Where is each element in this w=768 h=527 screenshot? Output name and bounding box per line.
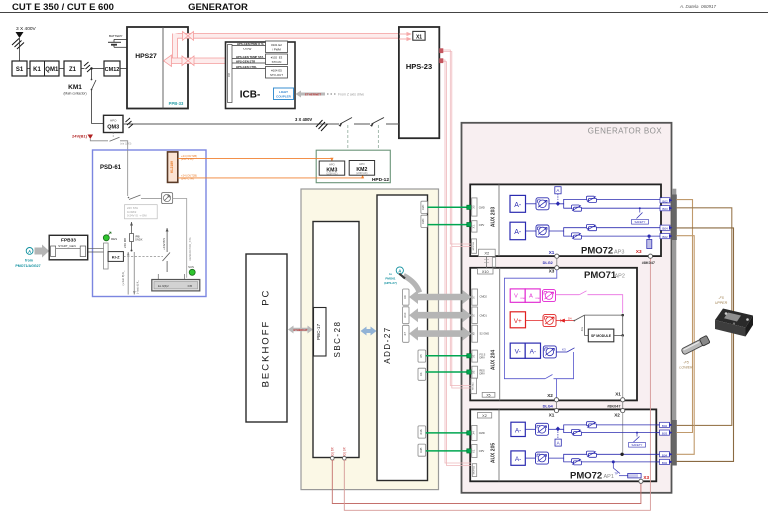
ethernet arrow from ICB (296, 91, 326, 98)
svg-text:V+: V+ (514, 318, 522, 325)
test point A box AP3 (555, 187, 561, 194)
link terminals X2-X10 (486, 256, 488, 268)
sensor CT V+ (543, 315, 556, 327)
indicator component (162, 193, 173, 204)
generator winding loop 4 (676, 236, 694, 455)
generator winding loop 3 (676, 228, 733, 462)
svg-text:HPS-GEN STR: HPS-GEN STR (236, 59, 255, 63)
svg-text:COUPLER: COUPLER (276, 95, 292, 99)
data arrow X7 to S2GND (409, 327, 472, 341)
port AP2 MCS11 (471, 378, 477, 394)
green wire X6 to AUX204 (426, 371, 469, 373)
wire QM3 to HPS-23 (123, 123, 399, 125)
svg-text:AUX 204: AUX 204 (491, 350, 497, 371)
svg-text:EL 9(6)2: EL 9(6)2 (158, 284, 169, 288)
fork upper AP1 (558, 425, 656, 429)
wire CM12 to HPS27 (120, 68, 127, 70)
generator winding loop 2 (676, 208, 732, 426)
amp module A-2 AP1 (511, 451, 525, 465)
svg-text:rew: rew (521, 297, 525, 300)
drive HPS-23 (399, 27, 439, 138)
svg-text:X7: X7 (403, 332, 407, 336)
terminal KL2189 (168, 152, 178, 183)
svg-text:A-: A- (530, 349, 537, 356)
filter Z1 (64, 61, 81, 76)
fuse F3 AP1 (587, 451, 597, 457)
converter HPS27 (127, 27, 188, 109)
switch below QM3 (112, 133, 114, 138)
switch on B/S feed (163, 253, 171, 262)
wire S1-K1 (27, 68, 30, 70)
amp module A-1 AP3 (510, 195, 526, 212)
svg-text:A: A (28, 249, 31, 254)
svg-text:X1.: X1. (471, 224, 475, 228)
port AP3 MCP311 (471, 239, 476, 253)
ICB light coupler (274, 88, 294, 100)
svg-text:SUS: SUS (188, 265, 194, 269)
svg-text:rew: rew (536, 297, 540, 300)
header rule (0, 12, 768, 14)
svg-text:(Main contactor): (Main contactor) (63, 92, 86, 96)
svg-text:B03: B03 (662, 432, 668, 436)
svg-text:GENERATOR BOX: GENERATOR BOX (588, 127, 663, 136)
svg-text:HPD-12: HPD-12 (372, 177, 389, 183)
port X10 (403, 307, 409, 324)
svg-text:PMO61: PMO61 (385, 277, 396, 281)
generator box enclosure (462, 123, 672, 493)
port X5 (418, 350, 426, 362)
svg-text:'U'V'W': 'U'V'W' (243, 47, 252, 51)
svg-text:KI-Z: KI-Z (112, 255, 120, 260)
test point A box AP1 (557, 432, 559, 440)
port AP1 MCP311 (472, 464, 476, 477)
svg-text:KM1: KM1 (68, 84, 82, 91)
ICB signal row 3 (232, 62, 266, 64)
divider AP2 (499, 268, 501, 401)
svg-text:RES: RES (111, 237, 117, 241)
LED green SUS (189, 269, 195, 275)
svg-text:SBC-28: SBC-28 (333, 320, 342, 357)
svg-text:PSD-61: PSD-61 (100, 165, 122, 171)
start module FPB33 (49, 235, 87, 259)
svg-text:-F5: -F5 (683, 361, 688, 365)
svg-text:40s: 40s (580, 326, 584, 331)
inverter PMO72 AP3 shell (470, 184, 661, 256)
wire supply to S1 (19, 38, 21, 61)
svg-text:X1: X1 (472, 354, 476, 358)
junction node AP1 upper (556, 427, 560, 432)
svg-text:GNDX: GNDX (135, 238, 143, 242)
svg-text:0-24V /S +-OM: 0-24V /S +-OM (127, 214, 147, 218)
grey arrow into FPB33 (35, 245, 50, 258)
sensor CT regen (543, 290, 556, 302)
svg-text:X5: X5 (486, 393, 490, 397)
svg-text:MCP311: MCP311 (474, 465, 476, 474)
orange wire 1 to KM3 (178, 158, 332, 160)
generator winding loop 1 (676, 200, 692, 433)
wire sf to bus (614, 334, 623, 336)
svg-text:SF MODULE: SF MODULE (591, 334, 612, 338)
terminal pin F5 LOWER (681, 335, 710, 355)
port X7 (403, 325, 409, 342)
svg-text:MCP311: MCP311 (473, 241, 475, 250)
svg-text:CMD: CMD (479, 206, 485, 210)
svg-text:X3: X3 (472, 370, 476, 374)
svg-text:OPV: OPV (479, 223, 485, 227)
svg-text:X3A: X3A (419, 429, 423, 434)
fork upper AP3 (558, 199, 661, 203)
svg-text:AP3: AP3 (614, 249, 624, 255)
card PBC-17 (314, 308, 327, 357)
svg-text:S2 GND: S2 GND (480, 332, 490, 336)
svg-text:X2: X2 (484, 251, 490, 256)
divider AP1 (498, 409, 500, 481)
curved link arrow (404, 276, 420, 293)
port AP2 FOS DRV (472, 350, 478, 362)
svg-text:Z1: Z1 (69, 67, 77, 73)
switch hatch after Z1 (81, 68, 85, 70)
dc module V+ (510, 312, 525, 328)
terminal EL 9(6)2 (157, 274, 159, 280)
svg-text:STO-OUT: STO-OUT (270, 73, 283, 77)
sensor CT1 AP1 (525, 428, 536, 430)
svg-text:X2: X2 (482, 414, 487, 418)
fuse F2 AP3 (572, 205, 582, 211)
fuse F4 AP3 (572, 233, 582, 239)
svg-text:SAFETY: SAFETY (632, 443, 643, 447)
svg-text:X6: X6 (419, 372, 423, 376)
green wire X2C to AUX203 (428, 206, 470, 208)
svg-text:(- batt d) K_: (- batt d) K_ (135, 280, 139, 294)
port X3A (418, 426, 426, 438)
svg-text:X2: X2 (614, 413, 620, 418)
junction dot AP3 lower right (648, 235, 651, 238)
wire QM1-Z1 (59, 68, 64, 70)
contactor KM2 (349, 161, 374, 176)
svg-text:B02: B02 (662, 199, 668, 203)
sensor CT V- (543, 346, 556, 358)
svg-text:CMD: CMD (479, 431, 485, 435)
red wire SBC to AP1 X3 (332, 460, 641, 504)
io module ADD-27 (377, 195, 428, 481)
svg-text:X1: X1 (615, 391, 621, 396)
sensor CT2 AP3 (536, 225, 549, 237)
note box grey (125, 205, 158, 219)
amp module A-2 AP3 (510, 222, 526, 240)
port X9 (403, 289, 409, 305)
safety switch AP3 (639, 207, 641, 209)
svg-text:BATTERY: BATTERY (109, 34, 123, 38)
svg-text:(24V STA): (24V STA) (181, 157, 193, 161)
svg-text:24V MB: 24V MB (123, 238, 127, 248)
svg-text:B03: B03 (662, 207, 668, 211)
divider AP3 (498, 184, 500, 256)
svg-text:ICB-: ICB- (240, 90, 261, 101)
sensor CT1 AP3 (536, 198, 549, 210)
svg-text:ETHERCAT: ETHERCAT (294, 328, 308, 332)
svg-text:CUT E 350 / CUT E 600: CUT E 350 / CUT E 600 (12, 2, 114, 13)
switch to dark bus (574, 315, 584, 321)
bus arrow SBC to ADD (361, 327, 377, 336)
node junction KM1 (90, 67, 92, 69)
svg-text:+24V B/S: +24V B/S (162, 238, 166, 250)
wire junction to CM12 (92, 68, 105, 70)
svg-text:X1: X1 (549, 413, 555, 418)
svg-text:HPS27: HPS27 (135, 53, 157, 60)
wire sensor1 junction (549, 203, 558, 205)
mech link dashed KM3 (347, 125, 349, 161)
LED green RES (103, 235, 109, 241)
svg-text:B02: B02 (662, 235, 668, 239)
grey bus into AP1 (622, 413, 624, 455)
battery sense wires down (127, 252, 129, 295)
svg-text:PMO71/AGG27: PMO71/AGG27 (15, 264, 40, 268)
svg-text:X3B: X3B (419, 447, 423, 452)
wire A1 to sensor1 (526, 203, 537, 205)
svg-text:HPS-GEN PWM O %: HPS-GEN PWM O % (237, 42, 264, 46)
port AP2 CMD2 (472, 289, 478, 305)
svg-text:B02: B02 (662, 461, 668, 465)
dashed link K1Z (123, 255, 163, 257)
port AP2 X10 (478, 268, 494, 274)
svg-text:X1: X1 (549, 250, 555, 255)
supply arrow (16, 32, 24, 38)
svg-text:K1: K1 (33, 67, 41, 73)
svg-text:GENERATOR_STA: GENERATOR_STA (188, 237, 192, 261)
svg-text:V-: V- (515, 349, 521, 356)
svg-text:GENERATOR: GENERATOR (188, 2, 248, 13)
fuse IPB (130, 234, 134, 242)
svg-text:A-: A- (515, 456, 522, 463)
junction dot AP1 (620, 453, 623, 456)
junction node AP3 upper (556, 201, 560, 206)
svg-text:X3: X3 (636, 249, 642, 254)
svg-text:from: from (25, 259, 33, 263)
band arrowheads at HPS27 edge mid (182, 56, 188, 66)
svg-text:A-: A- (514, 229, 522, 236)
supply hatch (12, 39, 24, 50)
svg-text:(+ batt B) K_: (+ batt B) K_ (121, 270, 125, 285)
svg-text:AP2: AP2 (615, 274, 625, 280)
svg-text:(220V AC): (220V AC) (356, 172, 367, 175)
band arrows into X1 (399, 33, 408, 35)
contactor K1 (30, 61, 59, 76)
diode D4 (556, 320, 574, 322)
svg-text:SAFETY: SAFETY (635, 220, 646, 224)
svg-text:KL2189: KL2189 (170, 161, 174, 173)
green wire X2D to AUX203 (428, 224, 470, 226)
port X6 (418, 368, 426, 380)
svg-text:HPO: HPO (359, 162, 365, 166)
svg-text:X1.: X1. (471, 449, 475, 453)
power band ICB to HPS27 (171, 58, 226, 64)
svg-text:AP1: AP1 (604, 474, 614, 480)
HPS-23 right stubs (439, 48, 443, 53)
source marker A from PMO71 (26, 248, 33, 255)
svg-text:X2D: X2D (421, 219, 425, 224)
grey link bus AP2 right (622, 335, 624, 399)
svg-text:DLG4: DLG4 (543, 404, 554, 408)
svg-text:/ PWM: / PWM (272, 48, 281, 52)
link AP3-AP2 left (556, 258, 558, 265)
ICB signal row 1 (232, 45, 266, 47)
switch contact 2 on 3x400V line (370, 123, 386, 126)
svg-text:#101 E2: #101 E2 (271, 43, 282, 47)
svg-text:(24V CTR): (24V CTR) (181, 177, 194, 181)
port AP3 X5/CMD (472, 198, 477, 216)
green wire X3B to AUX205 (426, 450, 469, 452)
sensor CM12 (104, 61, 120, 76)
fuse F3 AP3 (587, 225, 597, 231)
switch inside PSD top (129, 195, 141, 200)
svg-text:MCS11: MCS11 (473, 382, 475, 390)
band arrowheads at HPS27 edge top (183, 32, 189, 41)
ICB signal row 2 (232, 58, 266, 60)
svg-text:DLG2: DLG2 (543, 261, 553, 265)
wires FPB33 to PSD (86, 247, 104, 249)
svg-text:OPV: OPV (479, 449, 485, 453)
svg-text:AUX 205: AUX 205 (491, 443, 497, 464)
port AP2 RES DRV (472, 366, 478, 378)
svg-text:TP: TP (615, 472, 619, 476)
pink power wires HPS-23 down (443, 50, 471, 466)
link AP2-AP1 left (556, 402, 558, 409)
busbar generator (672, 189, 676, 466)
svg-text:HPO: HPO (110, 119, 117, 123)
SBC bottom terminals (331, 456, 335, 460)
svg-text:(HPS-27): (HPS-27) (384, 281, 397, 285)
svg-text:B04: B04 (662, 227, 668, 231)
svg-text:X9: X9 (472, 332, 476, 336)
green wire X5 to AUX204 (426, 355, 469, 357)
svg-text:PBC-17: PBC-17 (316, 324, 321, 341)
svg-text:LIGHT: LIGHT (279, 90, 288, 94)
wire KM1 down to QM3 (92, 90, 104, 124)
svg-text:DRV: DRV (480, 373, 486, 376)
rack SBC-28 (313, 222, 359, 458)
safety module PSD-61 (93, 150, 207, 297)
svg-text:HPS-GEN CTRL: HPS-GEN CTRL (236, 65, 257, 69)
svg-text:A: A (557, 441, 560, 446)
svg-text:A-: A- (515, 427, 522, 434)
link AP2-AP1 right (622, 402, 624, 409)
svg-text:3 X 400V: 3 X 400V (16, 26, 37, 32)
svg-text:A-: A- (514, 202, 522, 209)
svg-text:X9: X9 (403, 295, 407, 299)
svg-text:#104 E5: #104 E5 (271, 68, 282, 72)
svg-text:HPS-23: HPS-23 (406, 62, 432, 71)
mech link dashed KM2 (377, 125, 379, 161)
svg-text:From Z axis drive: From Z axis drive (338, 93, 364, 97)
stem X2 AP2 (556, 379, 558, 400)
svg-text:UPPER: UPPER (715, 301, 728, 305)
dark bus wire AP2 (585, 314, 623, 316)
power band HPS27 to X1 (173, 34, 400, 61)
port AP2 X5 bottom (482, 392, 495, 397)
svg-text:PMO71: PMO71 (584, 270, 617, 281)
svg-text:#8K047: #8K047 (642, 261, 655, 265)
regen modules Vrew Arew (510, 289, 525, 302)
connector X1 (413, 31, 425, 40)
switch hatch right of QM3 (126, 118, 134, 128)
svg-text:FPB33: FPB33 (61, 238, 76, 244)
marker A to PMO61 (396, 267, 403, 274)
svg-text:A. Datela 060917: A. Datela 060917 (679, 4, 717, 9)
connector circle AP1 bottom (639, 479, 643, 483)
port AP1 X2 top (477, 413, 491, 418)
band arrowhead into HPS27 (164, 55, 172, 67)
TP switch to X3 AP1 (612, 462, 614, 468)
svg-text:X5: X5 (471, 205, 475, 209)
svg-text:V: V (514, 294, 518, 300)
svg-text:CMD1: CMD1 (480, 313, 488, 317)
svg-text:AUX 203: AUX 203 (491, 207, 497, 228)
port X2D (421, 215, 428, 227)
breaker S1 (12, 61, 27, 76)
svg-text:PPB-33: PPB-33 (169, 101, 184, 106)
magenta wire to right (556, 294, 580, 296)
cabinet cream container (301, 189, 439, 490)
switch contact 1 on 3x400V line (339, 123, 354, 126)
svg-text:BECKHOFF PC: BECKHOFF PC (261, 289, 272, 388)
data arrow X9 to CMD2 (409, 290, 472, 304)
svg-text:X5: X5 (419, 354, 423, 358)
wire 24V into PSD (127, 150, 129, 196)
computer BECKHOFF PC (246, 254, 287, 422)
inverter PMO72 AP1 shell (470, 409, 656, 481)
svg-text:X3: X3 (549, 269, 555, 274)
wire V+ sensor (526, 320, 544, 322)
ICB pin box 102 (266, 54, 288, 65)
svg-text:C8: C8 (227, 73, 231, 77)
svg-text:ADD-27: ADD-27 (383, 326, 392, 363)
svg-text:STO-IN: STO-IN (272, 60, 282, 64)
svg-text:X7: X7 (472, 313, 476, 317)
fork lower AP1 (549, 454, 657, 458)
phase stubs AP1 (656, 425, 672, 462)
svg-text:DRV: DRV (480, 356, 486, 359)
svg-text:(via QM3): (via QM3) (120, 142, 132, 146)
svg-text:X1: X1 (416, 34, 422, 40)
wire A2 to sensor2 (526, 230, 537, 232)
svg-text:LOWER: LOWER (679, 366, 693, 370)
relay K1-Z (108, 252, 123, 262)
svg-text:HPS-GEN TEMP STA: HPS-GEN TEMP STA (236, 55, 263, 59)
safety switch AP1 (636, 432, 638, 434)
svg-text:CM12: CM12 (105, 67, 120, 73)
port AP1 X4/CMD (472, 425, 477, 440)
svg-text:-F5: -F5 (718, 296, 723, 300)
svg-text:X2C: X2C (421, 205, 425, 210)
blue control loop AP2 (504, 270, 556, 379)
data arrow X10 to CMD1 (409, 308, 472, 322)
svg-text:QM1: QM1 (45, 67, 59, 73)
ethercat arrow PC to SBC (288, 326, 313, 334)
svg-text:X10: X10 (482, 270, 489, 274)
ICB signal row 4 (232, 68, 266, 70)
relay frame (104, 243, 109, 269)
svg-text:S1: S1 (16, 67, 24, 73)
svg-text:X4: X4 (471, 431, 475, 435)
wire 24V to PSD-61 (90, 139, 108, 141)
inverter PMO71 AP2 shell (470, 268, 637, 401)
fork lower AP3 (549, 228, 661, 231)
green wire X3A to AUX205 (426, 432, 469, 434)
orange wire 2 to KM2 (178, 176, 363, 178)
svg-text:24V(B1): 24V(B1) (72, 134, 88, 139)
junction under fuse (131, 250, 133, 252)
svg-text:F/B: F/B (188, 284, 192, 288)
